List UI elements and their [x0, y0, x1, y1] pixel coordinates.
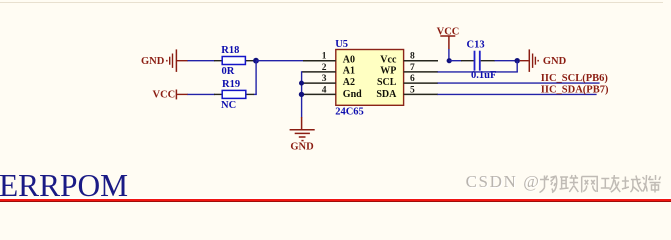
svg-text:SDA: SDA	[376, 89, 397, 100]
ground GND2 (below chip, earth bars)	[290, 117, 315, 152]
pin 1 (A0)	[303, 52, 355, 66]
wire pin2/3/4 bus down to ground	[301, 71, 303, 117]
svg-text:NC: NC	[221, 100, 236, 111]
svg-text:1: 1	[322, 52, 327, 62]
svg-text:U5: U5	[335, 39, 348, 50]
wire GND1 to R18	[188, 60, 216, 62]
sheet top border	[0, 2, 663, 4]
svg-text:R18: R18	[221, 45, 239, 56]
node junction A (R18/R19/pin1)	[253, 58, 259, 64]
watermark CJK glyph lian	[560, 175, 579, 192]
svg-text:A0: A0	[343, 54, 355, 65]
svg-text:IIC_SDA(PB7): IIC_SDA(PB7)	[541, 84, 609, 95]
svg-text:R19: R19	[222, 79, 240, 90]
bottom red rule	[0, 197, 671, 202]
pin 3 (A2)	[302, 74, 355, 88]
svg-text:6: 6	[410, 74, 415, 84]
svg-text:24C65: 24C65	[335, 107, 364, 118]
watermark CJK glyph gong	[601, 175, 621, 192]
svg-text:4: 4	[322, 85, 327, 95]
ground GND1 (left power ground symbol)	[141, 49, 188, 72]
wire C13 to GND node	[495, 60, 518, 62]
power VCC2 (top)	[437, 27, 460, 50]
resistor R19	[214, 79, 254, 111]
ground GND3 (right power ground symbol)	[520, 49, 567, 72]
wire node A to pin 1	[256, 60, 304, 62]
svg-text:C13: C13	[467, 40, 485, 51]
wire pin6 SCL net	[438, 82, 600, 84]
net label IIC_SDA(PB7)	[541, 84, 609, 95]
node junction pin3	[299, 81, 304, 86]
watermark CJK glyph wang	[582, 177, 598, 193]
svg-text:WP: WP	[380, 66, 396, 77]
wire junction down to pin7 (WP)	[438, 61, 518, 72]
pin 8 (Vcc)	[380, 52, 438, 66]
svg-text:GND: GND	[290, 141, 314, 152]
svg-text:GND: GND	[543, 56, 567, 67]
resistor R18	[214, 45, 254, 77]
svg-text:IIC_SCL(PB6): IIC_SCL(PB6)	[541, 73, 609, 84]
watermark CJK glyph wu	[540, 176, 557, 193]
pin 2 (A1)	[302, 63, 355, 77]
power VCC1 (left)	[153, 90, 189, 101]
svg-text:7: 7	[410, 63, 415, 73]
svg-text:3: 3	[322, 74, 327, 84]
svg-text:2: 2	[322, 63, 327, 73]
svg-text:ERRPOM: ERRPOM	[0, 168, 128, 202]
wire VCC1 to R19	[188, 93, 216, 95]
wire pin8 junction to C13	[449, 60, 462, 62]
capacitor C13	[461, 40, 496, 81]
node junction VCC/pin8	[447, 58, 452, 63]
wire VCC2 stem to pin8 net	[448, 49, 450, 61]
pin 7 (WP)	[380, 63, 438, 77]
svg-text:5: 5	[410, 85, 415, 95]
watermark CSDN	[466, 172, 542, 192]
svg-text:8: 8	[410, 52, 415, 62]
svg-text:GND: GND	[141, 56, 165, 67]
svg-text:Vcc: Vcc	[380, 54, 397, 65]
wire node A down to R19	[254, 61, 257, 95]
svg-text:0R: 0R	[222, 66, 235, 77]
watermark CJK glyph cheng	[622, 176, 643, 193]
svg-text:VCC: VCC	[153, 90, 176, 101]
svg-text:SCL: SCL	[377, 77, 397, 88]
svg-text:CSDN @: CSDN @	[466, 172, 541, 191]
svg-text:Gnd: Gnd	[343, 89, 362, 100]
wire pin5 SDA net	[438, 93, 597, 95]
watermark CJK glyph shi	[643, 175, 661, 193]
node junction C13/WP/GND	[515, 58, 520, 63]
pin 5 (SDA)	[376, 85, 438, 100]
svg-text:A2: A2	[343, 77, 355, 88]
node junction pin4	[299, 92, 304, 97]
pin 4 (Gnd)	[302, 85, 362, 100]
IC U5 24C65 body	[335, 39, 403, 118]
title ERRPOM	[0, 168, 128, 203]
svg-text:A1: A1	[343, 66, 355, 77]
pin 6 (SCL)	[377, 74, 438, 88]
net label IIC_SCL(PB6)	[541, 73, 609, 84]
